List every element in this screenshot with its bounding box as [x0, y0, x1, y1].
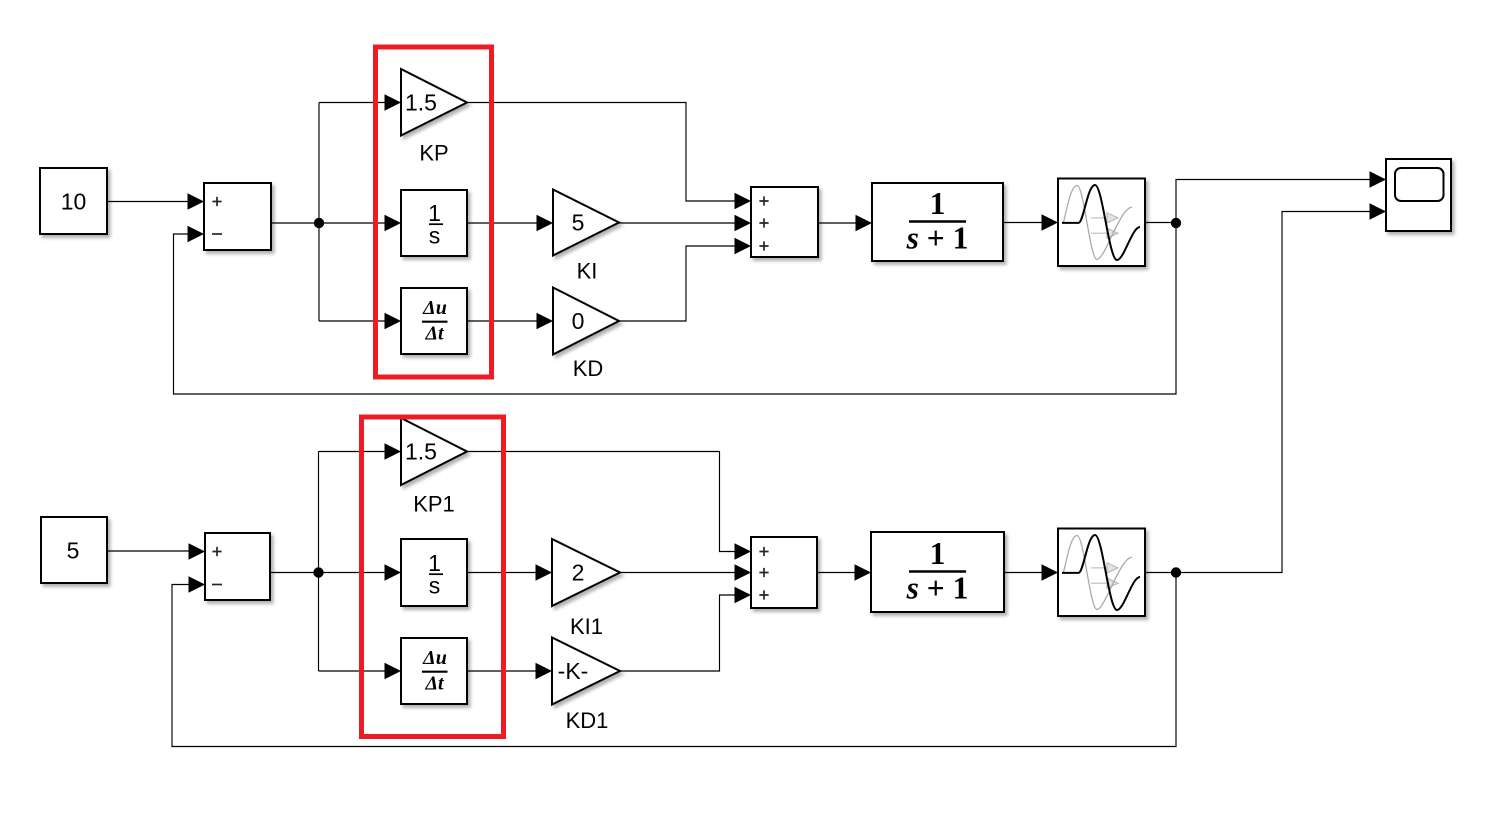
- wire node A to Integrator input: [319, 215, 401, 231]
- wire feedback node D to Sum1 minus port: [172, 573, 1176, 747]
- wire Sum output to branch node A: [271, 222, 319, 224]
- wire Transfer Fcn1 output to Transport Delay1 input: [1004, 564, 1058, 580]
- wire Transport Delay output to branch node B: [1145, 222, 1176, 224]
- wire Transfer Fcn output to Transport Delay input: [1003, 214, 1058, 230]
- svg-text:1: 1: [930, 536, 946, 571]
- wire Transport Delay1 output to branch node D: [1145, 572, 1176, 574]
- wire Difference output to gain KD: [467, 313, 553, 329]
- wire Difference1 output to gain KD1: [467, 663, 552, 679]
- svg-text:Δu: Δu: [422, 297, 447, 319]
- difference block Difference1 Δu/Δt: [401, 638, 467, 704]
- wire node B to Scope input 1: [1176, 171, 1386, 223]
- wire branch vertical at node C: [318, 452, 320, 672]
- node D branch dot: [1171, 567, 1181, 577]
- svg-text:10: 10: [61, 189, 87, 215]
- svg-text:KI1: KI1: [570, 614, 603, 639]
- svg-text:5: 5: [67, 538, 80, 564]
- wire node C to Difference1 input: [319, 663, 402, 679]
- transfer function block 1/(s+1): [872, 183, 1003, 261]
- svg-text:Δt: Δt: [424, 323, 445, 345]
- svg-text:KD: KD: [573, 356, 604, 381]
- svg-text:5: 5: [572, 210, 585, 236]
- wire feedback node B to Sum minus port: [174, 223, 1177, 394]
- wire Sum1 output to branch node C: [270, 572, 319, 574]
- constant block Constant1 value 5: [41, 517, 107, 583]
- wire Integrator output to gain KI: [467, 215, 553, 231]
- svg-text:KP1: KP1: [413, 492, 455, 517]
- wire Constant10 to Sum plus port: [107, 193, 204, 209]
- wire node A to gain KP input: [319, 94, 401, 110]
- transport delay block Transport Delay1: [1058, 529, 1145, 617]
- integrator block 1/s: [401, 190, 467, 256]
- wire Add1 output to Transfer Fcn1 input: [817, 564, 871, 580]
- svg-text:2: 2: [572, 560, 585, 586]
- gain KI1 triangle value 2: [552, 539, 620, 606]
- wire Constant5 to Sum1 plus port: [107, 543, 205, 559]
- transfer function block Transfer Fcn1 1/(s+1): [871, 532, 1004, 612]
- integrator block Integrator1 1/s: [401, 539, 467, 606]
- wire Integrator1 output to gain KI1: [467, 564, 552, 580]
- svg-text:0: 0: [572, 308, 585, 334]
- svg-text:1: 1: [930, 186, 946, 221]
- svg-text:KI: KI: [577, 259, 598, 284]
- sum block Add1 (+ + +): [751, 537, 817, 608]
- svg-text:-K-: -K-: [558, 658, 589, 684]
- sum block Sum (+ -): [204, 183, 271, 250]
- gain KP1 triangle value 1.5: [401, 418, 467, 485]
- node B branch dot: [1171, 218, 1181, 228]
- sum block Add (+ + +): [751, 187, 818, 257]
- red highlight rectangle around KP, Integrator, Difference: [376, 47, 492, 377]
- svg-text:KD1: KD1: [566, 708, 609, 733]
- node A branch dot: [314, 218, 324, 228]
- node C branch dot: [313, 567, 323, 577]
- transport delay block: [1058, 179, 1145, 267]
- red highlight rectangle around KP1, Integrator1, Difference1: [362, 417, 504, 737]
- wire gain KP output to Add port 1: [467, 103, 751, 210]
- wire gain KI1 output to Add1 port 2: [620, 564, 751, 580]
- svg-text:1.5: 1.5: [405, 439, 437, 465]
- gain KI triangle value 5: [553, 190, 619, 256]
- wire node C to gain KP1 input: [319, 443, 402, 459]
- svg-text:KP: KP: [419, 141, 448, 166]
- difference block Δu/Δt: [401, 288, 467, 354]
- svg-text:Δu: Δu: [422, 647, 447, 669]
- wire gain KI output to Add port 2: [619, 215, 751, 231]
- wire gain KD output to Add port 3: [619, 238, 751, 321]
- svg-text:Δt: Δt: [424, 673, 445, 695]
- svg-text:s + 1: s + 1: [906, 221, 969, 256]
- svg-text:s: s: [429, 573, 441, 599]
- scope block: [1386, 159, 1451, 231]
- wire gain KP1 output to Add1 port 1: [467, 452, 751, 560]
- gain KP triangle value 1.5: [401, 69, 467, 136]
- wire node C to Integrator1 input: [319, 564, 402, 580]
- wire node D to Scope input 2: [1176, 203, 1386, 572]
- wire node A to Difference input: [319, 313, 401, 329]
- wire branch vertical at node A: [318, 103, 320, 322]
- wire gain KD1 output to Add1 port 3: [620, 587, 751, 671]
- svg-text:s + 1: s + 1: [906, 571, 969, 606]
- gain KD triangle value 0: [553, 288, 619, 355]
- constant block Constant value 10: [40, 168, 107, 234]
- svg-text:1.5: 1.5: [405, 90, 437, 116]
- wire Add output to Transfer Fcn input: [818, 215, 872, 231]
- svg-text:s: s: [429, 223, 441, 249]
- sum block Sum1 (+ -): [205, 533, 270, 600]
- gain KD1 triangle value -K-: [552, 638, 620, 705]
